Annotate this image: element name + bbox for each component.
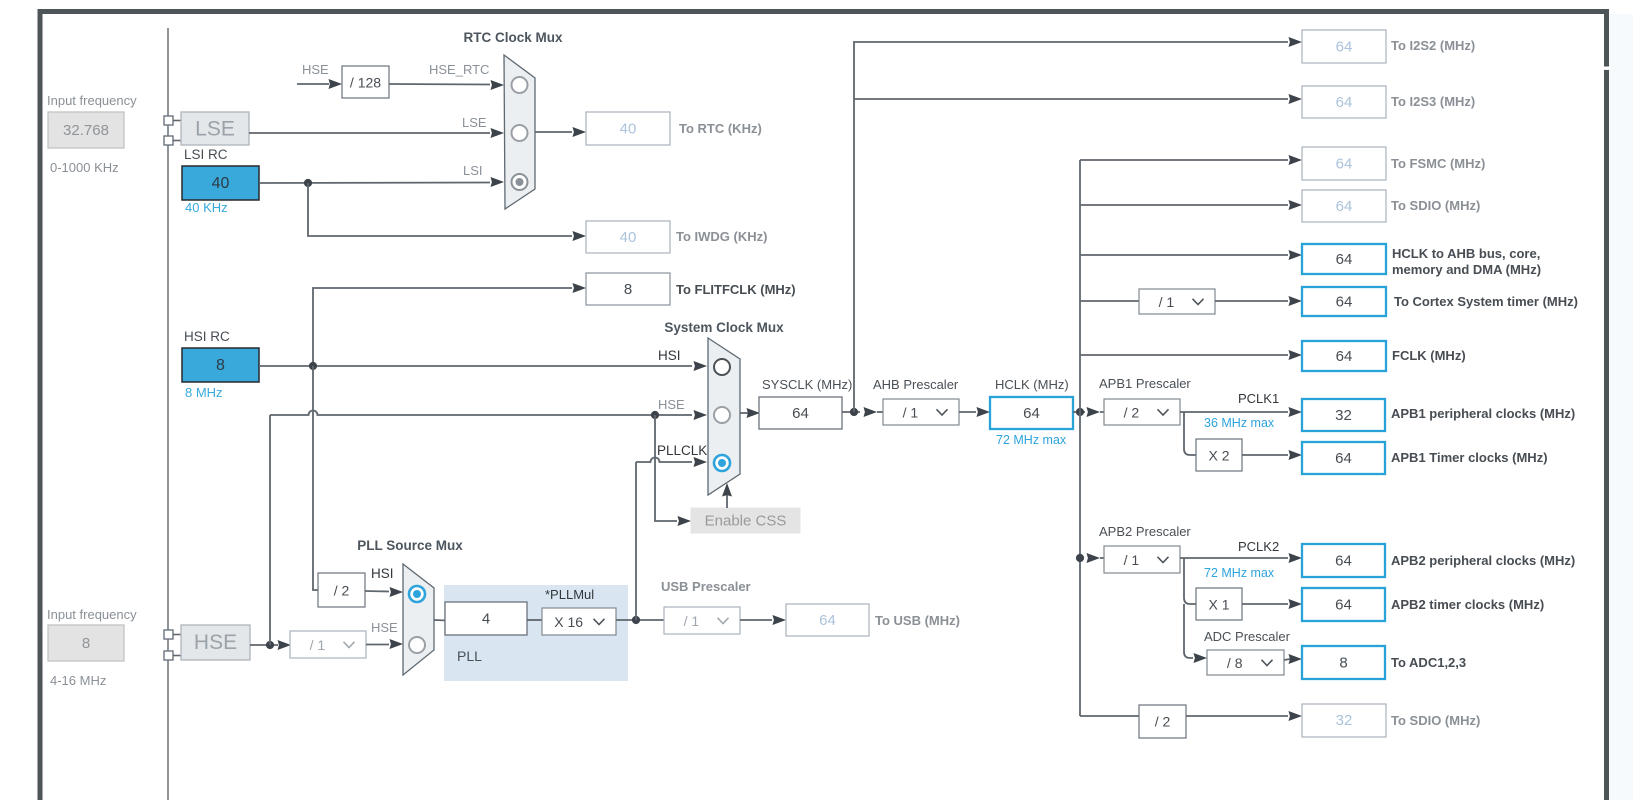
junction HSE output node [266,641,274,649]
svg-text:To I2S3 (MHz): To I2S3 (MHz) [1391,94,1475,109]
svg-text:40 KHz: 40 KHz [185,200,228,215]
wire RTC mux output [535,127,586,137]
label To I2S2 (MHz) [1391,38,1475,53]
label PLLCLK [657,443,707,458]
PLL source mux trapezoid [403,564,434,675]
wire SYSCLK to I2S3 [854,94,1302,104]
input frequency label (HSE) [47,607,137,622]
label bottom To SDIO (MHz) [1391,713,1480,728]
label ADC Prescaler [1204,629,1291,644]
wire HSE stub to /128 [297,79,342,89]
wire HCLK to APB1 prescaler [1073,407,1104,417]
label FCLK (MHz) [1392,348,1466,363]
RTC mux radio LSE [512,125,528,141]
USB /1 prescaler dropdown [664,607,740,634]
APB1 peripheral value box 32 [1302,399,1385,431]
svg-text:To SDIO (MHz): To SDIO (MHz) [1391,198,1480,213]
Enable CSS button [691,508,800,533]
HSE oscillator box [181,625,250,660]
wire X1 to timer box [1242,599,1302,609]
LSE pin square bottom [164,136,181,145]
wire PLL output up to PLLCLK [635,462,637,620]
svg-text:To I2S2 (MHz): To I2S2 (MHz) [1391,38,1475,53]
label USB Prescaler [661,579,751,594]
ADC value box 8 [1302,646,1385,679]
svg-text:/ 2: / 2 [1124,405,1140,421]
wire APB2 to peripheral box [1180,553,1302,563]
svg-text:32: 32 [1335,407,1352,424]
label System Clock Mux [664,320,784,335]
junction PLL output node [632,616,640,624]
label APB1 peripheral clocks [1391,406,1575,421]
wire PLL mux output [434,619,447,622]
label SYSCLK (MHz) [762,377,852,392]
svg-text:System Clock Mux: System Clock Mux [664,320,784,335]
svg-text:HSE: HSE [302,62,329,77]
label HSI (sysmux input) [658,348,681,363]
wire APB1 to X2 [1184,412,1196,455]
wire HSI to system mux [259,361,707,371]
label HSE (pll input) [371,620,398,635]
input frequency field 8 [48,625,124,661]
junction HSE-CSS node [651,411,659,419]
wire AHB to HCLK [959,407,990,417]
PLL input value box 4 [445,602,527,635]
label To IWDG (KHz) [676,229,767,244]
wire HSE to Enable CSS [655,415,691,526]
svg-text:4: 4 [482,611,490,628]
svg-text:8: 8 [82,635,90,652]
wire LSI to RTC mux [259,177,504,187]
svg-text:40: 40 [620,229,637,246]
svg-text:HSE: HSE [194,631,237,654]
svg-text:To FLITFCLK (MHz): To FLITFCLK (MHz) [676,282,796,297]
svg-text:To ADC1,2,3: To ADC1,2,3 [1391,655,1466,670]
svg-text:memory and DMA (MHz): memory and DMA (MHz) [1392,262,1541,277]
wire PLL output to USB prescaler [616,619,664,621]
svg-text:64: 64 [1336,251,1353,268]
svg-text:64: 64 [1336,156,1353,173]
PLL block background [444,585,628,681]
wire /1 to PLL mux [366,639,403,649]
label 72 MHz max (HCLK) [996,433,1067,447]
APB1 prescaler dropdown [1104,399,1180,425]
wire APB1 to peripheral box [1180,407,1302,417]
FCLK value box 64 [1302,341,1386,371]
LSE oscillator box [181,112,249,145]
svg-text:LSI RC: LSI RC [184,147,228,162]
wire APB2 to ADC prescaler [1184,604,1207,663]
svg-text:/ 1: / 1 [1124,552,1140,568]
svg-text:36 MHz max: 36 MHz max [1204,416,1275,430]
svg-text:/ 1: / 1 [903,405,919,421]
wire cortex prescaler to timer box [1215,296,1302,306]
HSE pin square bottom [164,651,181,660]
wire HSI to /2 divider [313,366,318,590]
svg-text:64: 64 [819,612,836,629]
svg-text:PLL Source Mux: PLL Source Mux [357,538,463,553]
svg-text:/ 1: / 1 [684,613,700,629]
X1 multiplier box [1196,588,1242,620]
svg-text:HSI: HSI [658,348,681,363]
PLLMul X16 dropdown [542,608,616,635]
RTC clock mux trapezoid [504,55,535,209]
label To Cortex System timer [1394,294,1578,309]
svg-text:HSE: HSE [371,620,398,635]
svg-text:72 MHz max: 72 MHz max [996,433,1067,447]
wire LSE to RTC mux [249,128,504,138]
label 40 KHz [185,200,228,215]
svg-text:32: 32 [1336,712,1353,729]
svg-text:PCLK1: PCLK1 [1238,391,1279,406]
wire USB prescaler to USB box [740,615,786,625]
svg-text:APB2 peripheral clocks (MHz): APB2 peripheral clocks (MHz) [1391,553,1575,568]
label To SDIO (MHz) [1391,198,1480,213]
svg-text:To SDIO (MHz): To SDIO (MHz) [1391,713,1480,728]
svg-text:LSE: LSE [195,118,235,141]
wire to HCLK AHB bus [1080,250,1302,260]
svg-text:HCLK (MHz): HCLK (MHz) [995,377,1069,392]
svg-text:40: 40 [620,121,637,138]
junction APB2 node [1076,553,1104,563]
junction SYSCLK node [850,408,858,416]
label HSI (pll input) [371,566,394,581]
label To ADC1,2,3 [1391,655,1466,670]
label To RTC (KHz) [679,121,762,136]
svg-text:32.768: 32.768 [63,122,109,139]
label LSE (mux input) [462,115,487,130]
svg-text:ADC Prescaler: ADC Prescaler [1204,629,1291,644]
To FLITFCLK value box 8 [586,273,670,305]
svg-text:8 MHz: 8 MHz [185,385,223,400]
wire /2 to PLL mux [365,587,403,597]
PLL mux radio HSE [409,637,425,653]
svg-text:HSE_RTC: HSE_RTC [429,62,489,77]
svg-text:/ 1: / 1 [1159,294,1175,310]
LSI RC source box 40 [182,166,259,200]
svg-text:To IWDG (KHz): To IWDG (KHz) [676,229,767,244]
system clock mux trapezoid [708,338,740,495]
svg-text:64: 64 [1335,553,1352,570]
cortex /1 dropdown [1139,289,1215,314]
APB2 peripheral value box 64 [1302,544,1385,577]
To USB value box 64 [786,604,869,636]
wire to SDIO [1080,200,1302,210]
label AHB Prescaler [873,377,959,392]
svg-text:LSI: LSI [463,163,483,178]
RTC mux radio HSE_RTC [512,77,528,93]
HSI RC source box 8 [182,348,259,382]
label PCLK1 [1238,391,1279,406]
label HCLK (MHz) [995,377,1069,392]
label HSE (rtc stub) [302,62,329,77]
APB2 prescaler dropdown [1104,546,1180,573]
left spine wire [167,28,169,800]
svg-text:/ 128: / 128 [350,75,381,91]
svg-text:Input frequency: Input frequency [47,607,137,622]
wire APB2 to X1 [1184,558,1196,604]
svg-text:APB1 peripheral clocks (MHz): APB1 peripheral clocks (MHz) [1391,406,1575,421]
label APB2 timer clocks [1391,597,1544,612]
label PLL Source Mux [357,538,463,553]
bottom SDIO value box 32 [1302,704,1386,737]
label APB2 Prescaler [1099,524,1191,539]
svg-text:USB Prescaler: USB Prescaler [661,579,751,594]
junction LSI node [304,179,312,187]
wire HSE up to system mux [269,415,271,645]
svg-text:HCLK to AHB bus, core,: HCLK to AHB bus, core, [1392,246,1540,261]
label HCLK to AHB bus [1392,246,1541,277]
svg-text:64: 64 [1023,405,1040,422]
svg-text:64: 64 [792,405,809,422]
label PCLK2 [1238,539,1279,554]
svg-text:HSE: HSE [658,397,685,412]
label HSE_RTC [429,62,489,77]
svg-text:8: 8 [216,357,225,374]
frame notch on right border [1602,67,1611,70]
svg-text:/ 2: / 2 [1155,714,1171,730]
HSE pin square top [164,630,181,639]
input frequency label (LSE) [47,93,137,108]
label HSE (sysmux input) [658,397,685,412]
label PLL [457,648,482,664]
svg-text:APB2 timer clocks (MHz): APB2 timer clocks (MHz) [1391,597,1544,612]
wire system mux output [740,408,760,418]
wire PLLCLK to system mux [636,457,707,467]
svg-text:APB1 Timer clocks (MHz): APB1 Timer clocks (MHz) [1391,450,1548,465]
wire to cortex prescaler [1080,300,1139,302]
To FSMC value box 64 [1302,147,1386,180]
range label 4-16 MHz [50,673,106,688]
X2 multiplier box [1196,439,1242,471]
system mux radio HSE [714,407,730,423]
wire HCLK fanout spine [1079,160,1081,716]
wire SYSCLK to I2S2 [854,37,1302,412]
label APB1 Prescaler [1099,376,1191,391]
svg-text:/ 8: / 8 [1227,655,1243,671]
svg-text:X 1: X 1 [1208,597,1229,613]
label APB2 peripheral clocks [1391,553,1575,568]
svg-text:RTC Clock Mux: RTC Clock Mux [463,30,563,45]
label 36 MHz max [1204,416,1275,430]
ADC prescaler dropdown [1207,650,1284,675]
HCLK value box 64 [990,397,1073,429]
label To USB (MHz) [875,613,960,628]
svg-text:To USB (MHz): To USB (MHz) [875,613,960,628]
PLL mux radio HSI (selected) [409,586,425,602]
APB1 timer value box 64 [1302,442,1385,474]
wire 4 to PLLMul [527,619,542,621]
To Cortex value box 64 [1302,287,1386,316]
divider /2 box (SDIO) [1139,705,1186,738]
To IWDG value box 40 [586,221,670,253]
svg-text:0-1000 KHz: 0-1000 KHz [50,160,119,175]
RTC mux radio LSI (selected) [512,174,528,190]
wire HSE to HSE prescaler [250,640,291,650]
To I2S3 value box 64 [1302,86,1386,118]
label 8 MHz [185,385,223,400]
svg-text:8: 8 [624,281,632,298]
HCLK to AHB value box 64 [1302,244,1386,274]
To RTC value box 40 [586,112,670,145]
label LSI (mux input) [463,163,483,178]
AHB prescaler dropdown [883,399,959,425]
label APB1 Timer clocks [1391,450,1548,465]
label To I2S3 (MHz) [1391,94,1475,109]
svg-text:To Cortex System timer (MHz): To Cortex System timer (MHz) [1394,294,1578,309]
wire HSI to FLITFCLK [313,283,586,366]
label RTC Clock Mux [463,30,563,45]
svg-text:To FSMC (MHz): To FSMC (MHz) [1391,156,1485,171]
label HSI RC [184,329,230,344]
wire HCLK to /2 divider [1080,715,1139,717]
svg-text:HSI RC: HSI RC [184,329,230,344]
APB2 timer value box 64 [1302,588,1385,621]
divider /2 box (PLL) [318,573,365,607]
wire /128 to RTC mux [389,80,504,90]
svg-text:APB2 Prescaler: APB2 Prescaler [1099,524,1191,539]
junction HSI node [309,362,317,370]
svg-text:64: 64 [1336,294,1353,311]
system mux radio PLLCLK (selected) [714,455,730,471]
svg-text:Enable CSS: Enable CSS [705,513,787,530]
label *PLLMul [545,587,594,602]
svg-text:64: 64 [1336,198,1353,215]
range label 0-1000 KHz [50,160,119,175]
wire HSE to system mux [270,410,707,420]
HSE /1 prescaler dropdown [290,631,366,658]
svg-text:8: 8 [1339,655,1347,672]
svg-text:FCLK (MHz): FCLK (MHz) [1392,348,1466,363]
svg-text:72 MHz max: 72 MHz max [1204,566,1275,580]
svg-text:/ 1: / 1 [310,637,326,653]
To I2S2 value box 64 [1302,30,1386,63]
svg-text:PLLCLK: PLLCLK [657,443,707,458]
junction HCLK node [1076,408,1084,416]
divider /128 box [342,66,389,98]
SYSCLK value box 64 [759,397,842,429]
svg-text:64: 64 [1336,348,1353,365]
input frequency field 32.768 [48,112,124,148]
svg-text:/ 2: / 2 [334,583,350,599]
svg-text:AHB Prescaler: AHB Prescaler [873,377,959,392]
svg-text:64: 64 [1335,450,1352,467]
svg-text:4-16 MHz: 4-16 MHz [50,673,106,688]
svg-text:64: 64 [1336,94,1353,111]
wire ADC prescaler to ADC box [1284,654,1302,664]
label LSI RC [184,147,228,162]
svg-text:LSE: LSE [462,115,487,130]
right edge light strip [1610,14,1633,800]
svg-text:*PLLMul: *PLLMul [545,587,594,602]
wire SYSCLK to AHB prescaler [842,407,883,417]
label 72 MHz max (PCLK2) [1204,566,1275,580]
svg-text:SYSCLK (MHz): SYSCLK (MHz) [762,377,852,392]
svg-text:HSI: HSI [371,566,394,581]
To SDIO value box 64 [1302,190,1386,222]
svg-text:X 16: X 16 [554,614,583,630]
svg-text:Input frequency: Input frequency [47,93,137,108]
wire LSI to IWDG [308,183,586,241]
LSE pin square top [164,116,181,125]
wire /2 to SDIO box [1186,711,1302,721]
svg-text:To RTC (KHz): To RTC (KHz) [679,121,762,136]
system mux radio HSI [714,359,730,375]
wire Enable CSS up arrow [722,483,732,508]
svg-text:APB1 Prescaler: APB1 Prescaler [1099,376,1191,391]
wire to FCLK [1080,350,1302,360]
wire to FSMC [1080,155,1302,165]
label To FSMC (MHz) [1391,156,1485,171]
label To FLITFCLK (MHz) [676,282,796,297]
svg-text:PLL: PLL [457,648,482,664]
svg-text:X 2: X 2 [1208,448,1229,464]
wire X2 to timer box [1242,450,1302,460]
svg-text:40: 40 [212,175,230,192]
svg-text:PCLK2: PCLK2 [1238,539,1279,554]
svg-text:64: 64 [1335,597,1352,614]
svg-text:64: 64 [1336,39,1353,56]
